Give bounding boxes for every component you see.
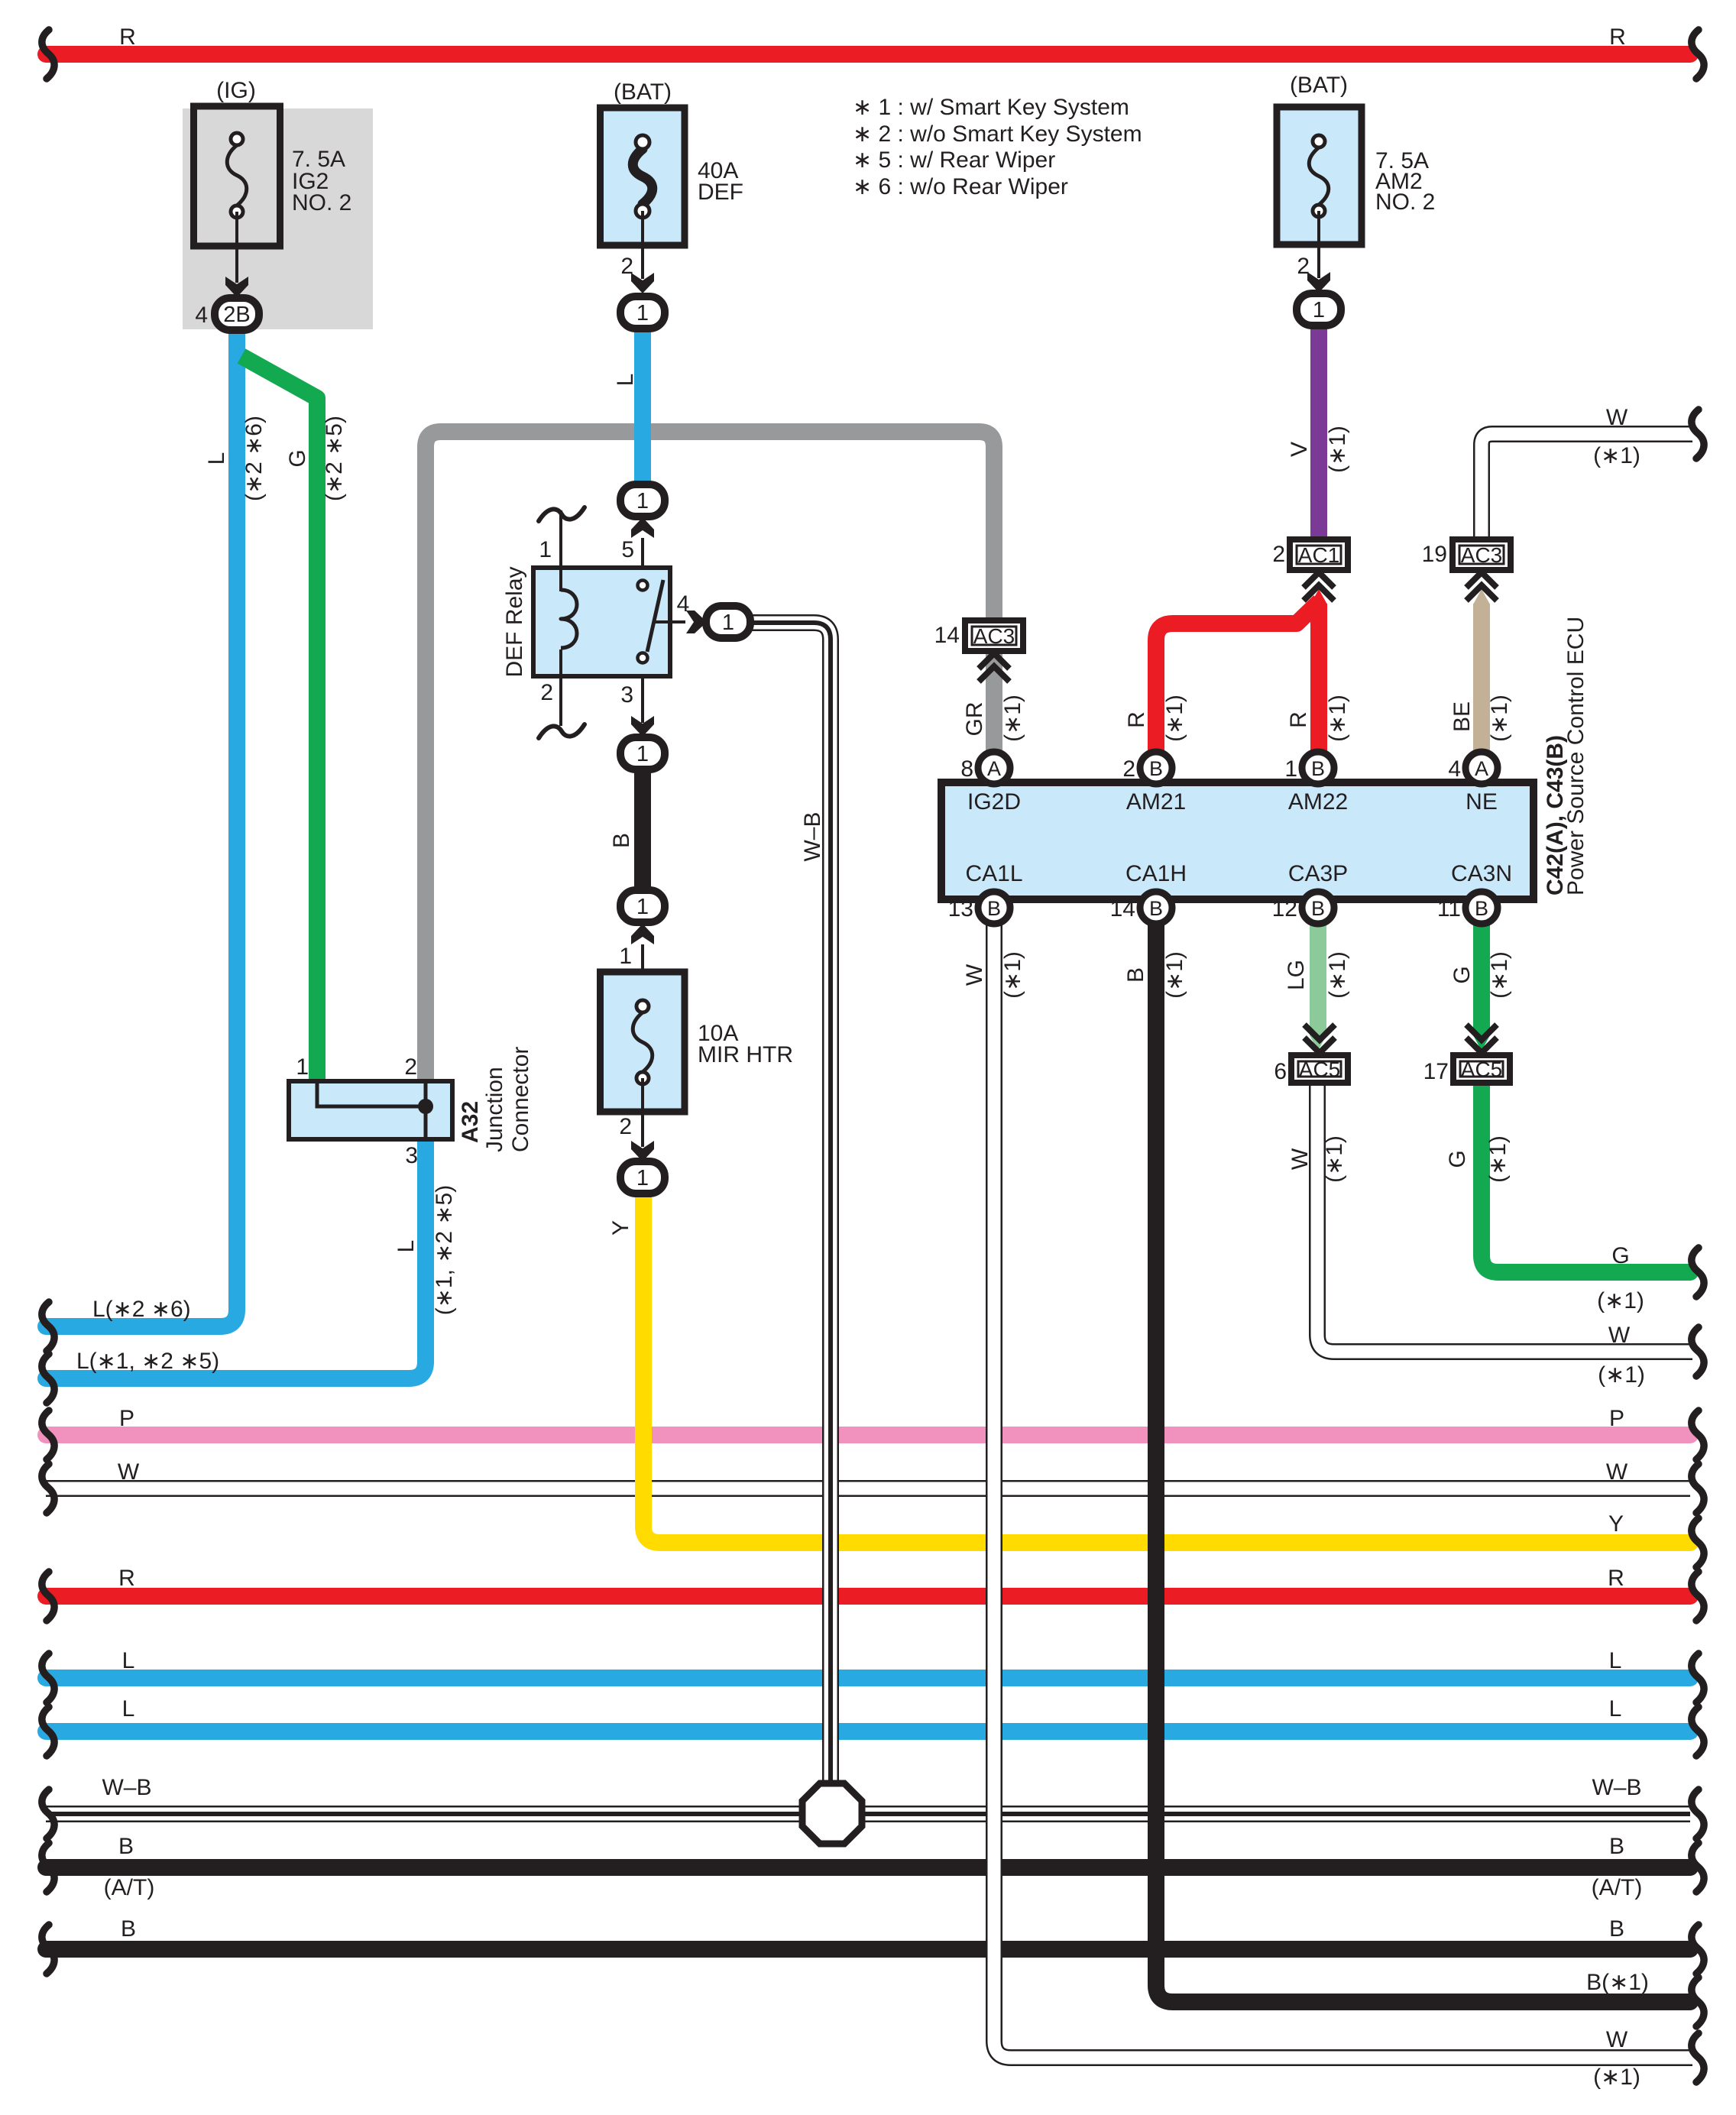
svg-text:B: B [609,833,634,848]
svg-text:1: 1 [636,1166,649,1190]
svg-text:(∗1): (∗1) [1325,426,1350,473]
svg-text:R: R [1609,24,1626,50]
svg-text:(∗1): (∗1) [1487,695,1512,742]
svg-text:CA3P: CA3P [1288,861,1348,886]
svg-text:11: 11 [1437,896,1461,921]
svg-text:2: 2 [1122,756,1135,782]
svg-text:Y: Y [1608,1511,1624,1537]
svg-text:(∗1): (∗1) [1322,1135,1347,1183]
svg-text:AC1: AC1 [1298,543,1339,567]
svg-text:1: 1 [296,1054,309,1080]
svg-text:AM22: AM22 [1288,789,1348,815]
svg-text:W: W [962,964,987,986]
svg-text:(BAT): (BAT) [1290,73,1348,98]
svg-text:R: R [1286,711,1311,728]
svg-text:B: B [1123,967,1148,983]
svg-text:L: L [1609,1648,1622,1673]
svg-text:(∗1): (∗1) [1593,443,1640,468]
svg-text:NO. 2: NO. 2 [292,190,351,215]
svg-text:L: L [204,452,229,465]
svg-text:CA1L: CA1L [965,861,1022,886]
svg-text:13: 13 [948,896,973,921]
svg-text:5: 5 [621,537,634,562]
svg-text:1: 1 [636,301,649,326]
svg-text:∗ 5 : w/ Rear Wiper: ∗ 5 : w/ Rear Wiper [853,147,1055,173]
svg-text:(∗1): (∗1) [1487,951,1512,999]
svg-text:MIR HTR: MIR HTR [698,1042,793,1067]
svg-text:G: G [1449,966,1475,983]
svg-text:2: 2 [620,254,633,279]
svg-text:(∗1): (∗1) [1597,1288,1644,1313]
svg-text:R: R [1124,711,1149,728]
svg-text:1: 1 [1313,298,1325,322]
svg-text:G: G [1445,1150,1470,1168]
svg-text:B: B [1609,1834,1624,1859]
svg-text:P: P [119,1406,134,1431]
svg-text:IG2D: IG2D [967,789,1021,815]
svg-text:B: B [1609,1916,1624,1942]
svg-text:2: 2 [540,680,553,705]
svg-text:1: 1 [636,895,649,919]
svg-text:B(∗1): B(∗1) [1586,1970,1649,1995]
svg-text:(∗1): (∗1) [1593,2065,1640,2090]
svg-text:1: 1 [636,742,649,766]
svg-text:17: 17 [1423,1059,1449,1084]
svg-text:B: B [1149,757,1163,780]
svg-text:(A/T): (A/T) [104,1875,155,1900]
svg-text:BE: BE [1449,701,1475,732]
svg-text:AC3: AC3 [1461,543,1502,567]
svg-text:8: 8 [960,756,973,782]
svg-text:AM21: AM21 [1126,789,1186,815]
svg-text:W: W [1606,2027,1628,2052]
svg-text:Power Source Control ECU: Power Source Control ECU [1563,617,1589,896]
svg-text:A32: A32 [458,1101,483,1143]
svg-text:NO. 2: NO. 2 [1375,189,1435,215]
svg-text:(∗1): (∗1) [1325,951,1350,999]
svg-text:2: 2 [404,1054,417,1080]
svg-text:3: 3 [405,1143,418,1168]
svg-text:L: L [613,374,638,387]
svg-text:L: L [1609,1696,1622,1721]
svg-text:(∗1): (∗1) [1000,951,1025,999]
svg-text:P: P [1609,1406,1624,1431]
svg-text:B: B [1475,897,1488,920]
svg-text:4: 4 [677,591,690,617]
svg-text:4: 4 [1448,756,1461,782]
svg-text:2B: 2B [223,303,250,327]
svg-text:3: 3 [620,682,633,708]
svg-text:W–B: W–B [1592,1775,1641,1800]
svg-text:B: B [121,1916,136,1942]
svg-text:R: R [118,1566,135,1591]
svg-text:(A/T): (A/T) [1592,1875,1643,1900]
svg-text:A: A [987,757,1001,780]
svg-text:Junction: Junction [482,1067,507,1152]
svg-text:14: 14 [934,623,960,648]
svg-text:DEF Relay: DEF Relay [502,566,527,677]
svg-text:(∗1): (∗1) [1485,1135,1511,1183]
svg-text:B: B [987,897,1001,920]
svg-text:DEF: DEF [698,180,743,205]
svg-text:L: L [122,1648,135,1673]
svg-text:AC5: AC5 [1299,1057,1340,1081]
svg-text:1: 1 [1284,756,1297,782]
svg-text:W: W [1608,1323,1631,1348]
svg-text:(∗1): (∗1) [1598,1362,1645,1388]
svg-text:12: 12 [1272,896,1297,921]
svg-text:L: L [394,1240,419,1253]
svg-text:A: A [1475,757,1488,780]
svg-text:(∗1): (∗1) [1162,695,1187,742]
svg-text:CA1H: CA1H [1125,861,1187,886]
svg-text:G: G [1611,1243,1629,1268]
svg-text:B: B [118,1834,134,1859]
svg-text:B: B [1311,757,1325,780]
svg-text:∗ 6 : w/o Rear Wiper: ∗ 6 : w/o Rear Wiper [853,174,1068,199]
svg-text:R: R [119,24,136,50]
svg-text:4: 4 [195,303,208,328]
svg-text:Y: Y [608,1220,633,1236]
svg-text:L(∗2 ∗6): L(∗2 ∗6) [92,1297,191,1322]
svg-text:V: V [1287,442,1312,457]
svg-text:B: B [1311,897,1325,920]
svg-text:(∗1): (∗1) [1325,695,1350,742]
svg-text:1: 1 [619,944,632,969]
svg-text:W: W [1606,1459,1628,1485]
svg-text:B: B [1149,897,1163,920]
svg-text:NE: NE [1466,789,1498,815]
svg-text:W: W [1606,405,1628,430]
svg-text:(∗2 ∗5): (∗2 ∗5) [322,416,347,501]
svg-text:(∗1, ∗2 ∗5): (∗1, ∗2 ∗5) [432,1185,457,1315]
svg-text:2: 2 [1297,254,1310,279]
svg-text:19: 19 [1422,542,1447,567]
svg-text:6: 6 [1274,1059,1287,1084]
svg-text:W–B: W–B [800,811,825,861]
svg-text:L(∗1, ∗2 ∗5): L(∗1, ∗2 ∗5) [76,1349,219,1374]
svg-text:GR: GR [962,702,987,737]
svg-text:LG: LG [1284,960,1309,990]
svg-text:∗ 2 : w/o Smart Key System: ∗ 2 : w/o Smart Key System [853,121,1142,147]
svg-text:W–B: W–B [102,1775,151,1800]
svg-text:(∗2 ∗6): (∗2 ∗6) [241,416,267,501]
svg-text:1: 1 [539,537,552,562]
svg-text:AC5: AC5 [1461,1057,1502,1081]
svg-text:Connector: Connector [508,1047,533,1152]
svg-text:W: W [118,1459,140,1485]
svg-text:1: 1 [722,611,734,635]
svg-text:(BAT): (BAT) [614,79,672,105]
svg-text:AC3: AC3 [973,624,1015,648]
svg-text:14: 14 [1110,896,1135,921]
svg-text:∗ 1 : w/ Smart Key System: ∗ 1 : w/ Smart Key System [853,95,1129,120]
svg-text:2: 2 [1272,542,1285,567]
svg-text:(IG): (IG) [216,78,256,103]
svg-text:(∗1): (∗1) [1000,695,1025,742]
svg-text:1: 1 [636,489,649,513]
svg-text:(∗1): (∗1) [1162,951,1187,999]
svg-text:G: G [285,449,310,467]
svg-text:R: R [1608,1566,1624,1591]
svg-text:L: L [122,1696,135,1721]
svg-text:2: 2 [619,1114,632,1139]
svg-text:CA3N: CA3N [1451,861,1512,886]
svg-text:W: W [1287,1148,1313,1170]
